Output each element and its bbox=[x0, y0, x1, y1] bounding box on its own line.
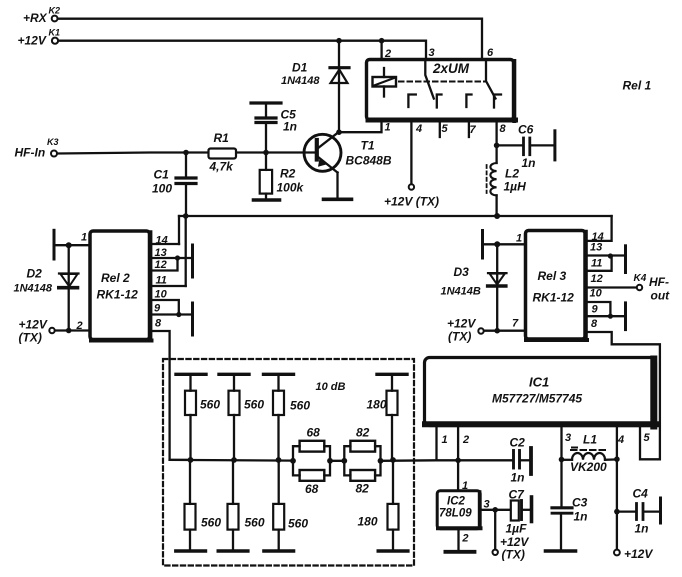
svg-text:1: 1 bbox=[81, 232, 87, 244]
svg-text:10: 10 bbox=[590, 288, 603, 300]
svg-text:2: 2 bbox=[462, 434, 469, 446]
svg-text:1µH: 1µH bbox=[504, 180, 527, 194]
svg-text:C3: C3 bbox=[572, 496, 588, 510]
svg-text:1n: 1n bbox=[283, 120, 297, 134]
svg-text:180: 180 bbox=[358, 515, 378, 529]
svg-text:4: 4 bbox=[415, 123, 422, 135]
svg-text:560: 560 bbox=[201, 516, 221, 530]
svg-text:3: 3 bbox=[565, 432, 571, 444]
svg-text:+RX: +RX bbox=[23, 11, 48, 25]
svg-text:100k: 100k bbox=[277, 181, 305, 195]
svg-text:K4: K4 bbox=[634, 273, 647, 284]
svg-text:C4: C4 bbox=[633, 487, 649, 501]
svg-text:L2: L2 bbox=[505, 167, 519, 181]
svg-text:+12V: +12V bbox=[624, 547, 653, 561]
svg-text:10 dB: 10 dB bbox=[316, 381, 346, 393]
svg-text:out: out bbox=[651, 289, 671, 303]
svg-text:Rel 3: Rel 3 bbox=[538, 269, 567, 283]
svg-text:560: 560 bbox=[288, 517, 308, 531]
svg-text:14: 14 bbox=[156, 235, 168, 247]
svg-text:2: 2 bbox=[384, 48, 391, 60]
svg-text:Rel 2: Rel 2 bbox=[101, 271, 130, 285]
svg-text:M57727/M57745: M57727/M57745 bbox=[492, 392, 582, 406]
svg-text:8: 8 bbox=[155, 318, 162, 330]
svg-text:VK200: VK200 bbox=[570, 460, 607, 474]
svg-text:T1: T1 bbox=[361, 139, 375, 153]
svg-text:L1: L1 bbox=[583, 433, 597, 447]
svg-text:1n: 1n bbox=[635, 522, 649, 536]
svg-text:82: 82 bbox=[356, 482, 370, 496]
svg-text:1: 1 bbox=[462, 480, 468, 492]
svg-text:IC2: IC2 bbox=[447, 496, 466, 508]
svg-text:11: 11 bbox=[156, 275, 167, 287]
svg-text:12: 12 bbox=[155, 259, 167, 271]
svg-text:+12V: +12V bbox=[447, 317, 476, 331]
svg-text:1n: 1n bbox=[574, 510, 588, 524]
svg-text:82: 82 bbox=[356, 426, 370, 440]
svg-text:13: 13 bbox=[590, 242, 602, 254]
svg-text:C6: C6 bbox=[518, 123, 534, 137]
svg-text:12: 12 bbox=[591, 273, 603, 285]
svg-text:R1: R1 bbox=[214, 131, 230, 145]
svg-text:(TX): (TX) bbox=[502, 548, 525, 562]
svg-text:HF-: HF- bbox=[649, 275, 669, 289]
svg-text:8: 8 bbox=[591, 318, 598, 330]
svg-text:C1: C1 bbox=[154, 168, 170, 182]
svg-text:D2: D2 bbox=[27, 267, 43, 281]
svg-text:13: 13 bbox=[155, 247, 167, 259]
svg-text:1: 1 bbox=[385, 122, 391, 134]
svg-text:2: 2 bbox=[461, 533, 468, 545]
svg-text:560: 560 bbox=[290, 399, 310, 413]
svg-text:68: 68 bbox=[307, 426, 321, 440]
svg-text:+12V: +12V bbox=[19, 318, 48, 332]
svg-text:K3: K3 bbox=[47, 137, 59, 147]
svg-text:8: 8 bbox=[500, 123, 507, 135]
svg-text:+12V (TX): +12V (TX) bbox=[384, 195, 439, 209]
svg-text:10: 10 bbox=[155, 289, 168, 301]
svg-text:+12V: +12V bbox=[18, 34, 47, 48]
svg-text:100: 100 bbox=[152, 182, 172, 196]
svg-text:560: 560 bbox=[200, 398, 220, 412]
svg-text:180: 180 bbox=[367, 398, 387, 412]
svg-text:1N4148: 1N4148 bbox=[14, 283, 53, 295]
svg-text:K2: K2 bbox=[49, 6, 61, 16]
svg-text:560: 560 bbox=[244, 398, 264, 412]
svg-text:7: 7 bbox=[470, 124, 477, 136]
svg-text:R2: R2 bbox=[280, 167, 296, 181]
svg-text:9: 9 bbox=[592, 304, 599, 316]
svg-text:C2: C2 bbox=[510, 436, 526, 450]
svg-text:1N4148: 1N4148 bbox=[281, 75, 320, 87]
svg-text:4: 4 bbox=[617, 434, 624, 446]
svg-text:7: 7 bbox=[512, 318, 519, 330]
svg-text:68: 68 bbox=[305, 482, 319, 496]
svg-text:2: 2 bbox=[76, 320, 83, 332]
svg-text:4,7k: 4,7k bbox=[209, 160, 235, 174]
svg-text:3: 3 bbox=[484, 499, 490, 511]
svg-text:3: 3 bbox=[429, 47, 435, 59]
svg-text:(TX): (TX) bbox=[448, 330, 471, 344]
svg-text:1N414B: 1N414B bbox=[441, 286, 481, 298]
svg-text:1: 1 bbox=[442, 434, 448, 446]
svg-text:6: 6 bbox=[487, 47, 494, 59]
svg-text:C7: C7 bbox=[509, 488, 526, 502]
svg-text:D3: D3 bbox=[454, 265, 470, 279]
svg-text:HF-In: HF-In bbox=[15, 146, 46, 160]
svg-text:1: 1 bbox=[516, 233, 522, 245]
svg-text:9: 9 bbox=[154, 303, 161, 315]
svg-text:5: 5 bbox=[644, 432, 651, 444]
svg-text:78L09: 78L09 bbox=[439, 508, 472, 520]
svg-text:RK1-12: RK1-12 bbox=[97, 288, 139, 302]
svg-text:RK1-12: RK1-12 bbox=[533, 291, 575, 305]
svg-text:K1: K1 bbox=[49, 28, 61, 38]
svg-text:(TX): (TX) bbox=[19, 331, 42, 345]
svg-text:BC848B: BC848B bbox=[346, 154, 392, 168]
svg-text:1n: 1n bbox=[522, 156, 536, 170]
svg-text:Rel 1: Rel 1 bbox=[623, 79, 652, 93]
svg-text:560: 560 bbox=[245, 516, 265, 530]
svg-text:2xUM: 2xUM bbox=[432, 61, 470, 76]
svg-text:1n: 1n bbox=[511, 471, 525, 485]
svg-text:11: 11 bbox=[591, 258, 602, 270]
svg-text:D1: D1 bbox=[292, 61, 308, 75]
svg-text:IC1: IC1 bbox=[529, 375, 549, 390]
svg-text:5: 5 bbox=[442, 123, 449, 135]
svg-text:1µF: 1µF bbox=[506, 522, 528, 536]
